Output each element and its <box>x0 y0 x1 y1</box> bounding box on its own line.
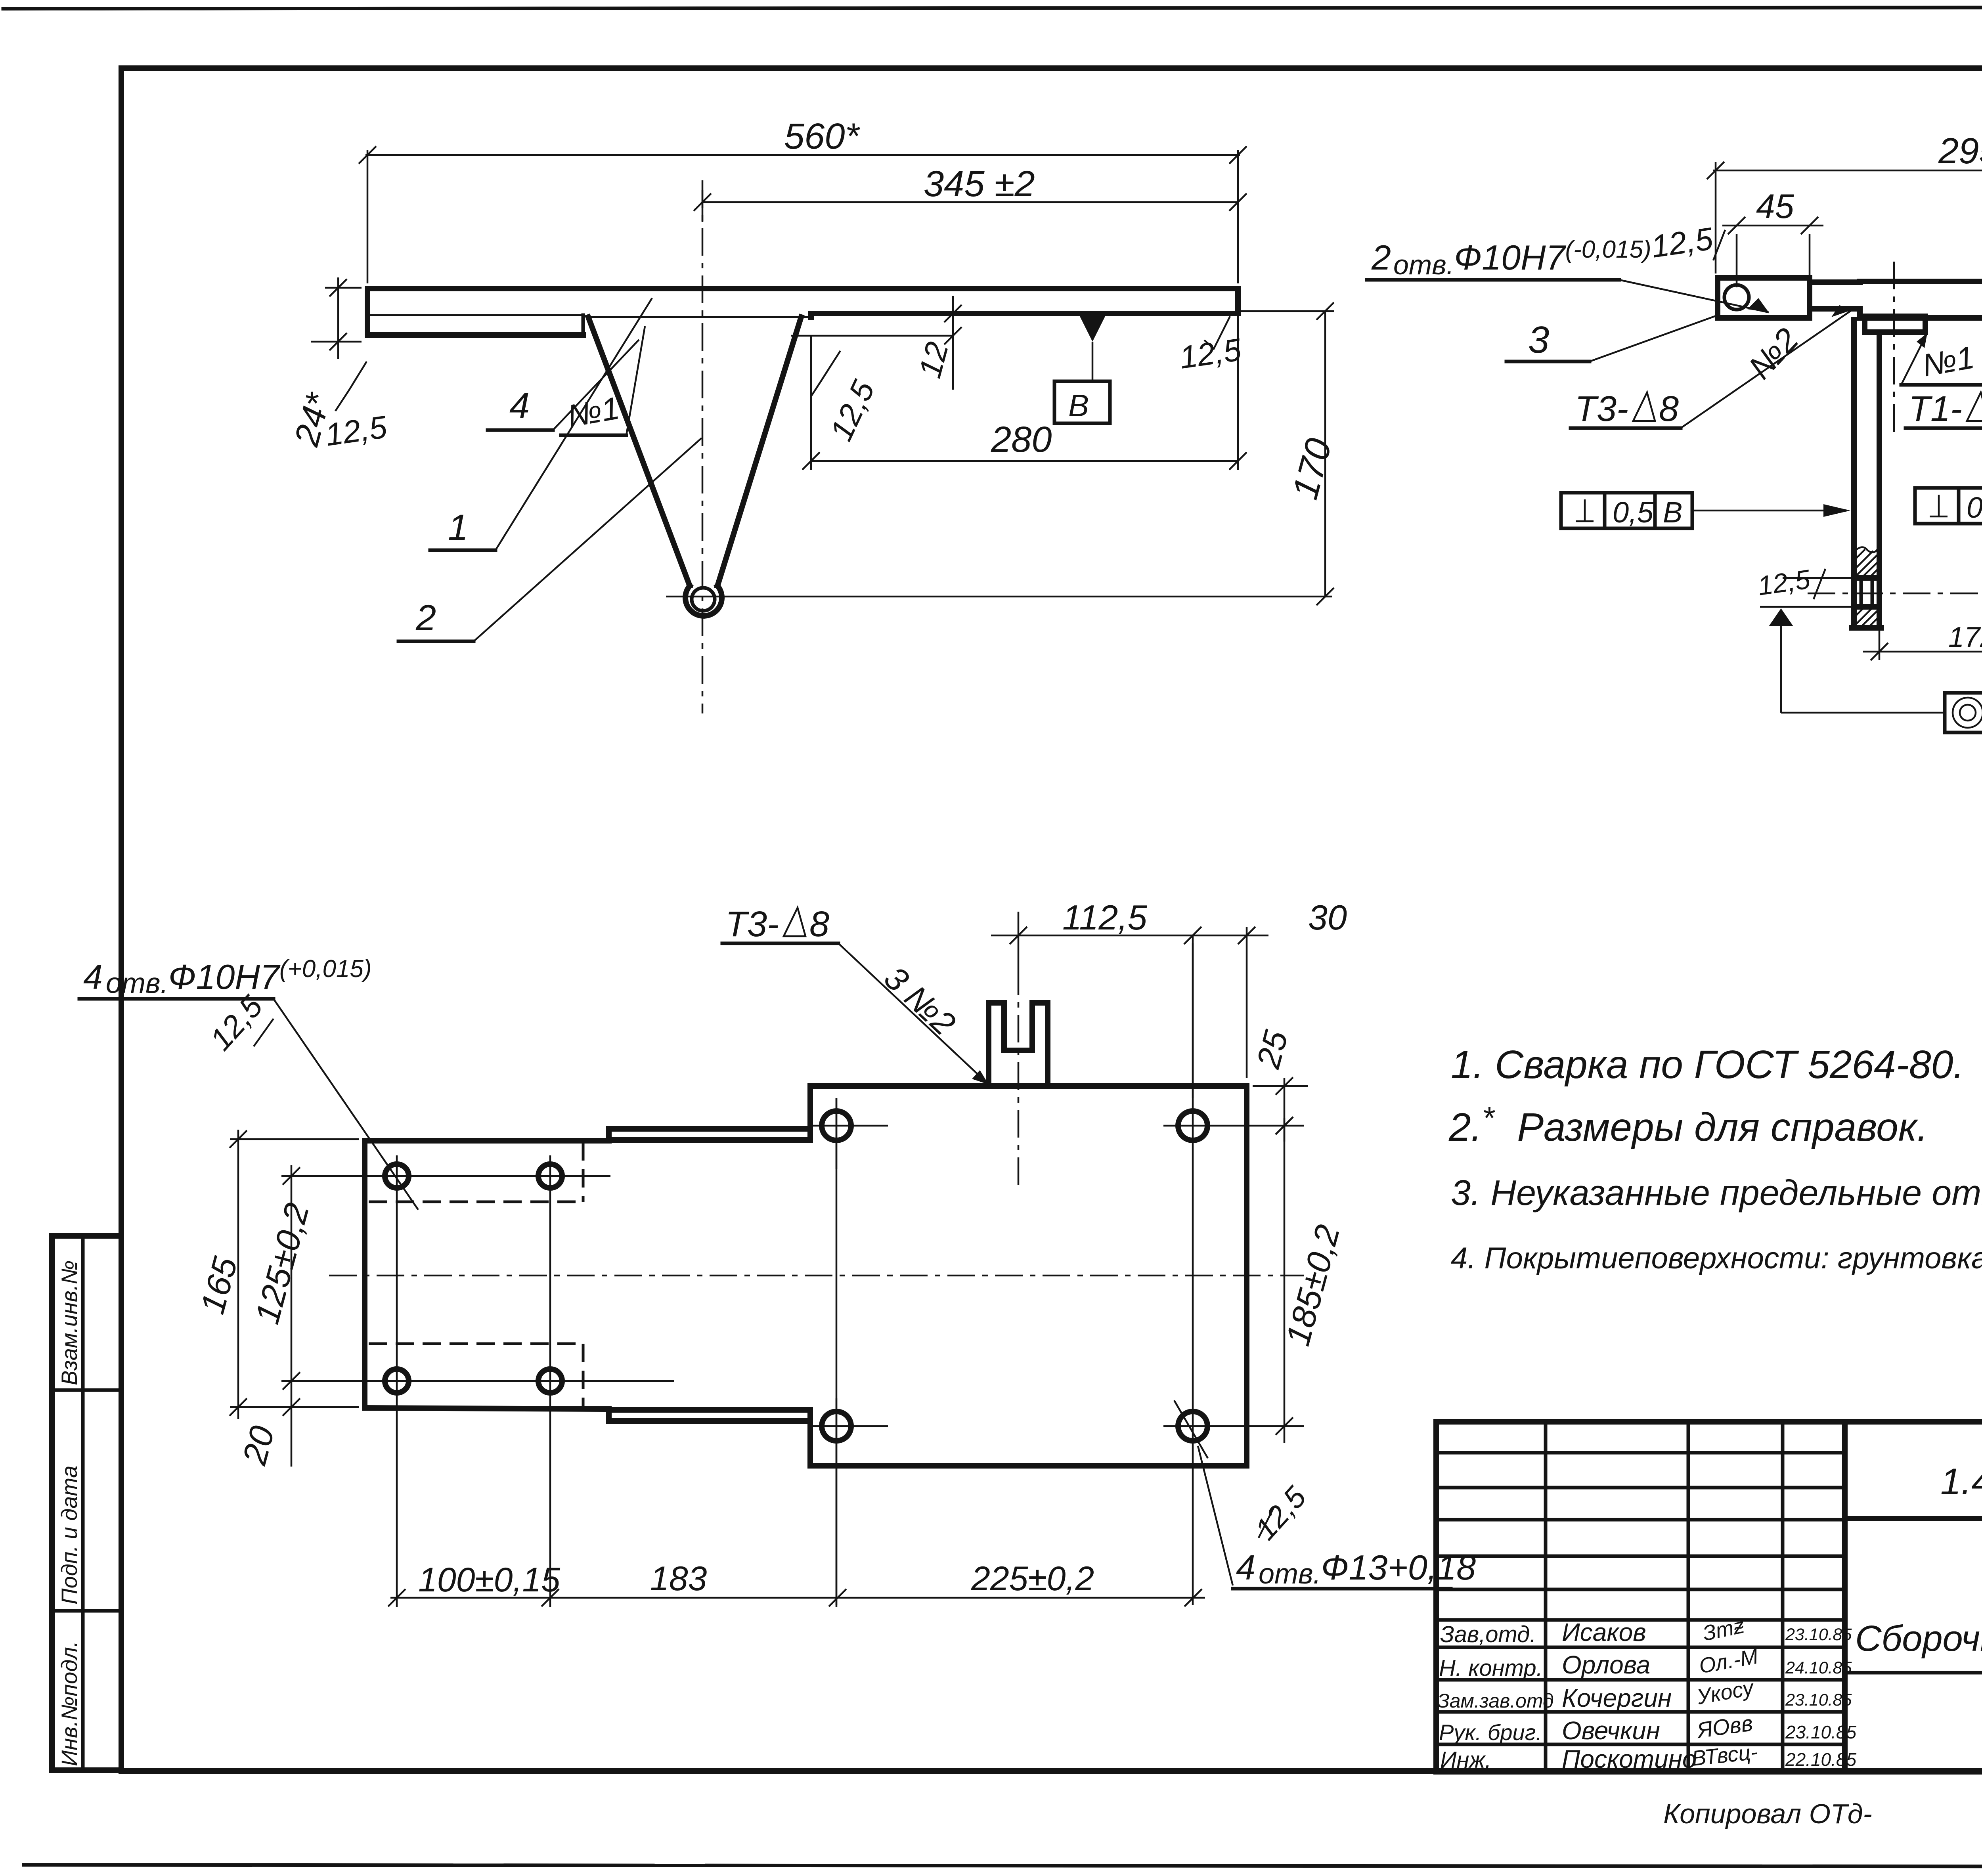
strip label Взам.инв.№ <box>57 1260 82 1385</box>
perpendicularity frame right <box>1915 488 1982 524</box>
dimension 25 right <box>1249 1027 1308 1142</box>
roughness 12,5 at Ф13 callout <box>1248 1480 1313 1546</box>
svg-text:0,5: 0,5 <box>1613 496 1654 529</box>
signature row Зам.зав.отд Кочергин <box>1437 1675 1852 1712</box>
plate pos.4 lower pad side view <box>367 315 583 335</box>
hole column centerline right <box>549 1155 551 1405</box>
weld flag and view letter B <box>1054 315 1110 423</box>
dimension 185±0,2 <box>1276 1117 1347 1443</box>
hole column centerline left <box>396 1155 398 1405</box>
perpendicularity frame left <box>1561 493 1850 529</box>
svg-text:Зам.зав.отд: Зам.зав.отд <box>1437 1690 1554 1712</box>
roughness 12,5 right end <box>1177 316 1244 375</box>
svg-text:Зав,отд.: Зав,отд. <box>1440 1622 1536 1647</box>
sheet outer bottom border <box>24 1865 1982 1867</box>
svg-text:В: В <box>1663 496 1682 529</box>
Ф13 hole bottom-right <box>1163 1411 1304 1441</box>
bottom dimension chain extension lines <box>397 1405 836 1607</box>
svg-text:Инв.№подл.: Инв.№подл. <box>57 1641 82 1766</box>
gusset hole <box>692 588 715 611</box>
roughness 12,5 left <box>323 361 389 453</box>
weld designation Т3-Δ8 plan <box>722 905 989 1084</box>
weld designation Т3-Δ8 <box>1571 305 1852 429</box>
signature row Рук.бриг Овечкин <box>1439 1710 1856 1745</box>
fork vertical centerline <box>1018 967 1020 1189</box>
dimension 345 ±2 <box>694 164 1247 222</box>
svg-text:Поскотино: Поскотино <box>1562 1745 1697 1773</box>
name cell lines <box>1845 1518 1982 1772</box>
dimension 125±0,2 <box>248 1165 359 1467</box>
title Плита. Сборочный чертеж <box>1855 1568 1982 1659</box>
callout 2 отв.Ф10Н7 <box>1367 236 1769 312</box>
technical notes <box>1448 1042 1982 1275</box>
4 holes Ф10Н7 <box>385 1164 562 1393</box>
bottom rib edge strip <box>609 1409 810 1421</box>
svg-text:30: 30 <box>1308 898 1347 937</box>
roughness 12,5 near callout <box>1649 221 1725 264</box>
svg-text:345 ±2: 345 ±2 <box>924 164 1035 204</box>
svg-text:Овечкин: Овечкин <box>1562 1716 1660 1745</box>
Ф13 hole top-left <box>809 1098 888 1169</box>
svg-text:3: 3 <box>1528 319 1549 361</box>
dimension 280 <box>802 314 1247 470</box>
concentricity leader line <box>1781 712 1982 714</box>
roughness 12,5 at recess step <box>811 351 881 446</box>
dimension 183 <box>553 1560 846 1606</box>
dimension 24* <box>286 277 362 450</box>
concentricity frame Ф0,1 <box>1945 693 1982 732</box>
plate outline plan view <box>365 1086 1247 1466</box>
svg-text:1. Сварка по ГОСТ 5264-80.: 1. Сварка по ГОСТ 5264-80. <box>1451 1042 1964 1087</box>
gusset fork plan view <box>989 1003 1048 1086</box>
weld label №1 side view <box>561 326 645 435</box>
signature row Инж. Поскотино <box>1440 1740 1856 1773</box>
dimension 295* <box>1707 131 1982 275</box>
gusset centerline <box>702 180 704 713</box>
hole axis centerline <box>1808 593 1982 595</box>
strip label Подп. и дата <box>57 1465 82 1604</box>
left wall hatching <box>1855 549 1879 627</box>
roughness 12,5 hole <box>1756 564 1854 607</box>
svg-text:280: 280 <box>991 419 1052 460</box>
dimension 100±0,15 <box>388 1561 561 1606</box>
Ф13 hole top-right <box>1163 1111 1304 1140</box>
weld designation Т1-Δ6 <box>1905 333 1982 429</box>
svg-text:1: 1 <box>448 507 468 548</box>
plate pos.1 side view <box>367 289 1238 335</box>
svg-text:Исаков: Исаков <box>1562 1618 1646 1647</box>
svg-text:0,5: 0,5 <box>1967 491 1982 524</box>
sheet outer top border <box>3 7 1982 9</box>
svg-text:В: В <box>1068 388 1089 423</box>
svg-text:560*: 560* <box>784 116 860 157</box>
hole axis extension line to 170 dim <box>666 596 1332 598</box>
boss with hole pos.3 <box>1718 278 1810 318</box>
dimension 172-1-2 <box>1863 620 1982 662</box>
svg-text:Т3-: Т3- <box>725 905 779 944</box>
neck between boss and plate <box>1810 282 1860 309</box>
svg-text:45: 45 <box>1756 187 1795 226</box>
dimension 12 step <box>912 296 962 390</box>
Ф13 hole bottom-left <box>809 1398 888 1455</box>
signature row Н.контр. Орлова <box>1439 1645 1852 1681</box>
signature row Зав.отд. Исаков <box>1440 1614 1852 1647</box>
weld label №1 section <box>1901 333 1982 385</box>
svg-text:Орлова: Орлова <box>1562 1650 1650 1679</box>
svg-text:295*: 295* <box>1938 131 1982 171</box>
svg-text:Рук. бриг.: Рук. бриг. <box>1439 1720 1542 1745</box>
left wall pos.2 section <box>1852 319 1881 628</box>
callout 1 <box>430 298 652 550</box>
svg-text:4: 4 <box>509 386 530 426</box>
callout 4отв Ф13+0,18 <box>1174 1400 1476 1590</box>
dimension 112,5 <box>991 898 1213 1098</box>
drawing designation 1.435.3-27.3 07.04.30СБ <box>1940 1461 1982 1502</box>
svg-text:Кочергин: Кочергин <box>1562 1684 1672 1712</box>
dimension 20 <box>235 1398 300 1469</box>
main horizontal centerline <box>329 1275 1304 1277</box>
svg-text:8: 8 <box>809 905 829 944</box>
strip label Инв.№подл. <box>57 1641 82 1766</box>
svg-text:Инж.: Инж. <box>1440 1747 1491 1773</box>
hidden pad outline top <box>369 1142 583 1202</box>
weld seam label №2 left <box>1741 321 1806 386</box>
wall centerline left <box>1893 262 1895 432</box>
top rib edge strip <box>609 1129 810 1141</box>
svg-text:Н. контр.: Н. контр. <box>1439 1655 1543 1681</box>
title block signature table grid <box>1436 1422 1845 1772</box>
callout 2 <box>398 438 702 641</box>
svg-text:3. Неуказанные предельные о: 3. Неуказанные предельные отклонения раз… <box>1451 1173 1982 1217</box>
svg-text:Т1-: Т1- <box>1909 389 1962 429</box>
recess depth line (12) <box>791 335 953 337</box>
svg-text:Подп. и дата: Подп. и дата <box>57 1465 82 1604</box>
dimension 30 top <box>1213 898 1347 1078</box>
datum B flag <box>1769 608 1793 713</box>
title block main area frame <box>1845 1422 1982 1772</box>
svg-text:1.435.3-27.3 07.04.30СБ: 1.435.3-27.3 07.04.30СБ <box>1940 1461 1982 1502</box>
left backing strip under plate <box>1865 316 1925 332</box>
svg-text:Взам.инв.№: Взам.инв.№ <box>57 1260 82 1385</box>
svg-text:183: 183 <box>650 1560 707 1598</box>
svg-text:4. Покрытиеповерхности: грунт: 4. Покрытиеповерхности: грунтовка ПЛ-021… <box>1451 1241 1982 1275</box>
svg-text:2.* Размеры для справок.: 2.* Размеры для справок. <box>1448 1100 1928 1149</box>
callout 3 <box>1506 315 1718 361</box>
dimension 165 <box>193 1130 359 1419</box>
plate section top-right view <box>1860 281 1982 318</box>
svg-text:112,5: 112,5 <box>1062 898 1148 937</box>
callout 4отв Ф10Н7 <box>79 955 418 1210</box>
svg-text:225±0,2: 225±0,2 <box>971 1560 1094 1598</box>
weld label 3 №2 rotated <box>877 959 963 1042</box>
gusset pos.2 side view <box>588 317 801 616</box>
roughness 12,5 at callout 4отв <box>203 989 274 1057</box>
hole row centerline bottom <box>359 1380 674 1382</box>
svg-text:2: 2 <box>415 598 436 638</box>
dimension 225±0,2 <box>838 1560 1205 1606</box>
svg-text:Копировал ОТд-: Копировал ОТд- <box>1663 1798 1872 1829</box>
dimension 170 <box>1238 302 1339 605</box>
bottom margin text Копировал <box>1663 1798 1872 1829</box>
left attachment strip table <box>52 1236 121 1770</box>
hidden pad outline bottom <box>369 1344 583 1406</box>
svg-text:8: 8 <box>1659 389 1679 429</box>
dimension 45 <box>1722 187 1823 287</box>
svg-text:Сборочный чертеж: Сборочный чертеж <box>1855 1618 1982 1659</box>
dimension 560* <box>359 116 1247 283</box>
hole row centerline top <box>359 1175 610 1177</box>
svg-text:Т3-: Т3- <box>1575 389 1628 429</box>
Ф13 column centerlines <box>836 935 1193 1605</box>
svg-text:100±0,15: 100±0,15 <box>418 1561 561 1599</box>
callout 4 <box>488 340 639 430</box>
